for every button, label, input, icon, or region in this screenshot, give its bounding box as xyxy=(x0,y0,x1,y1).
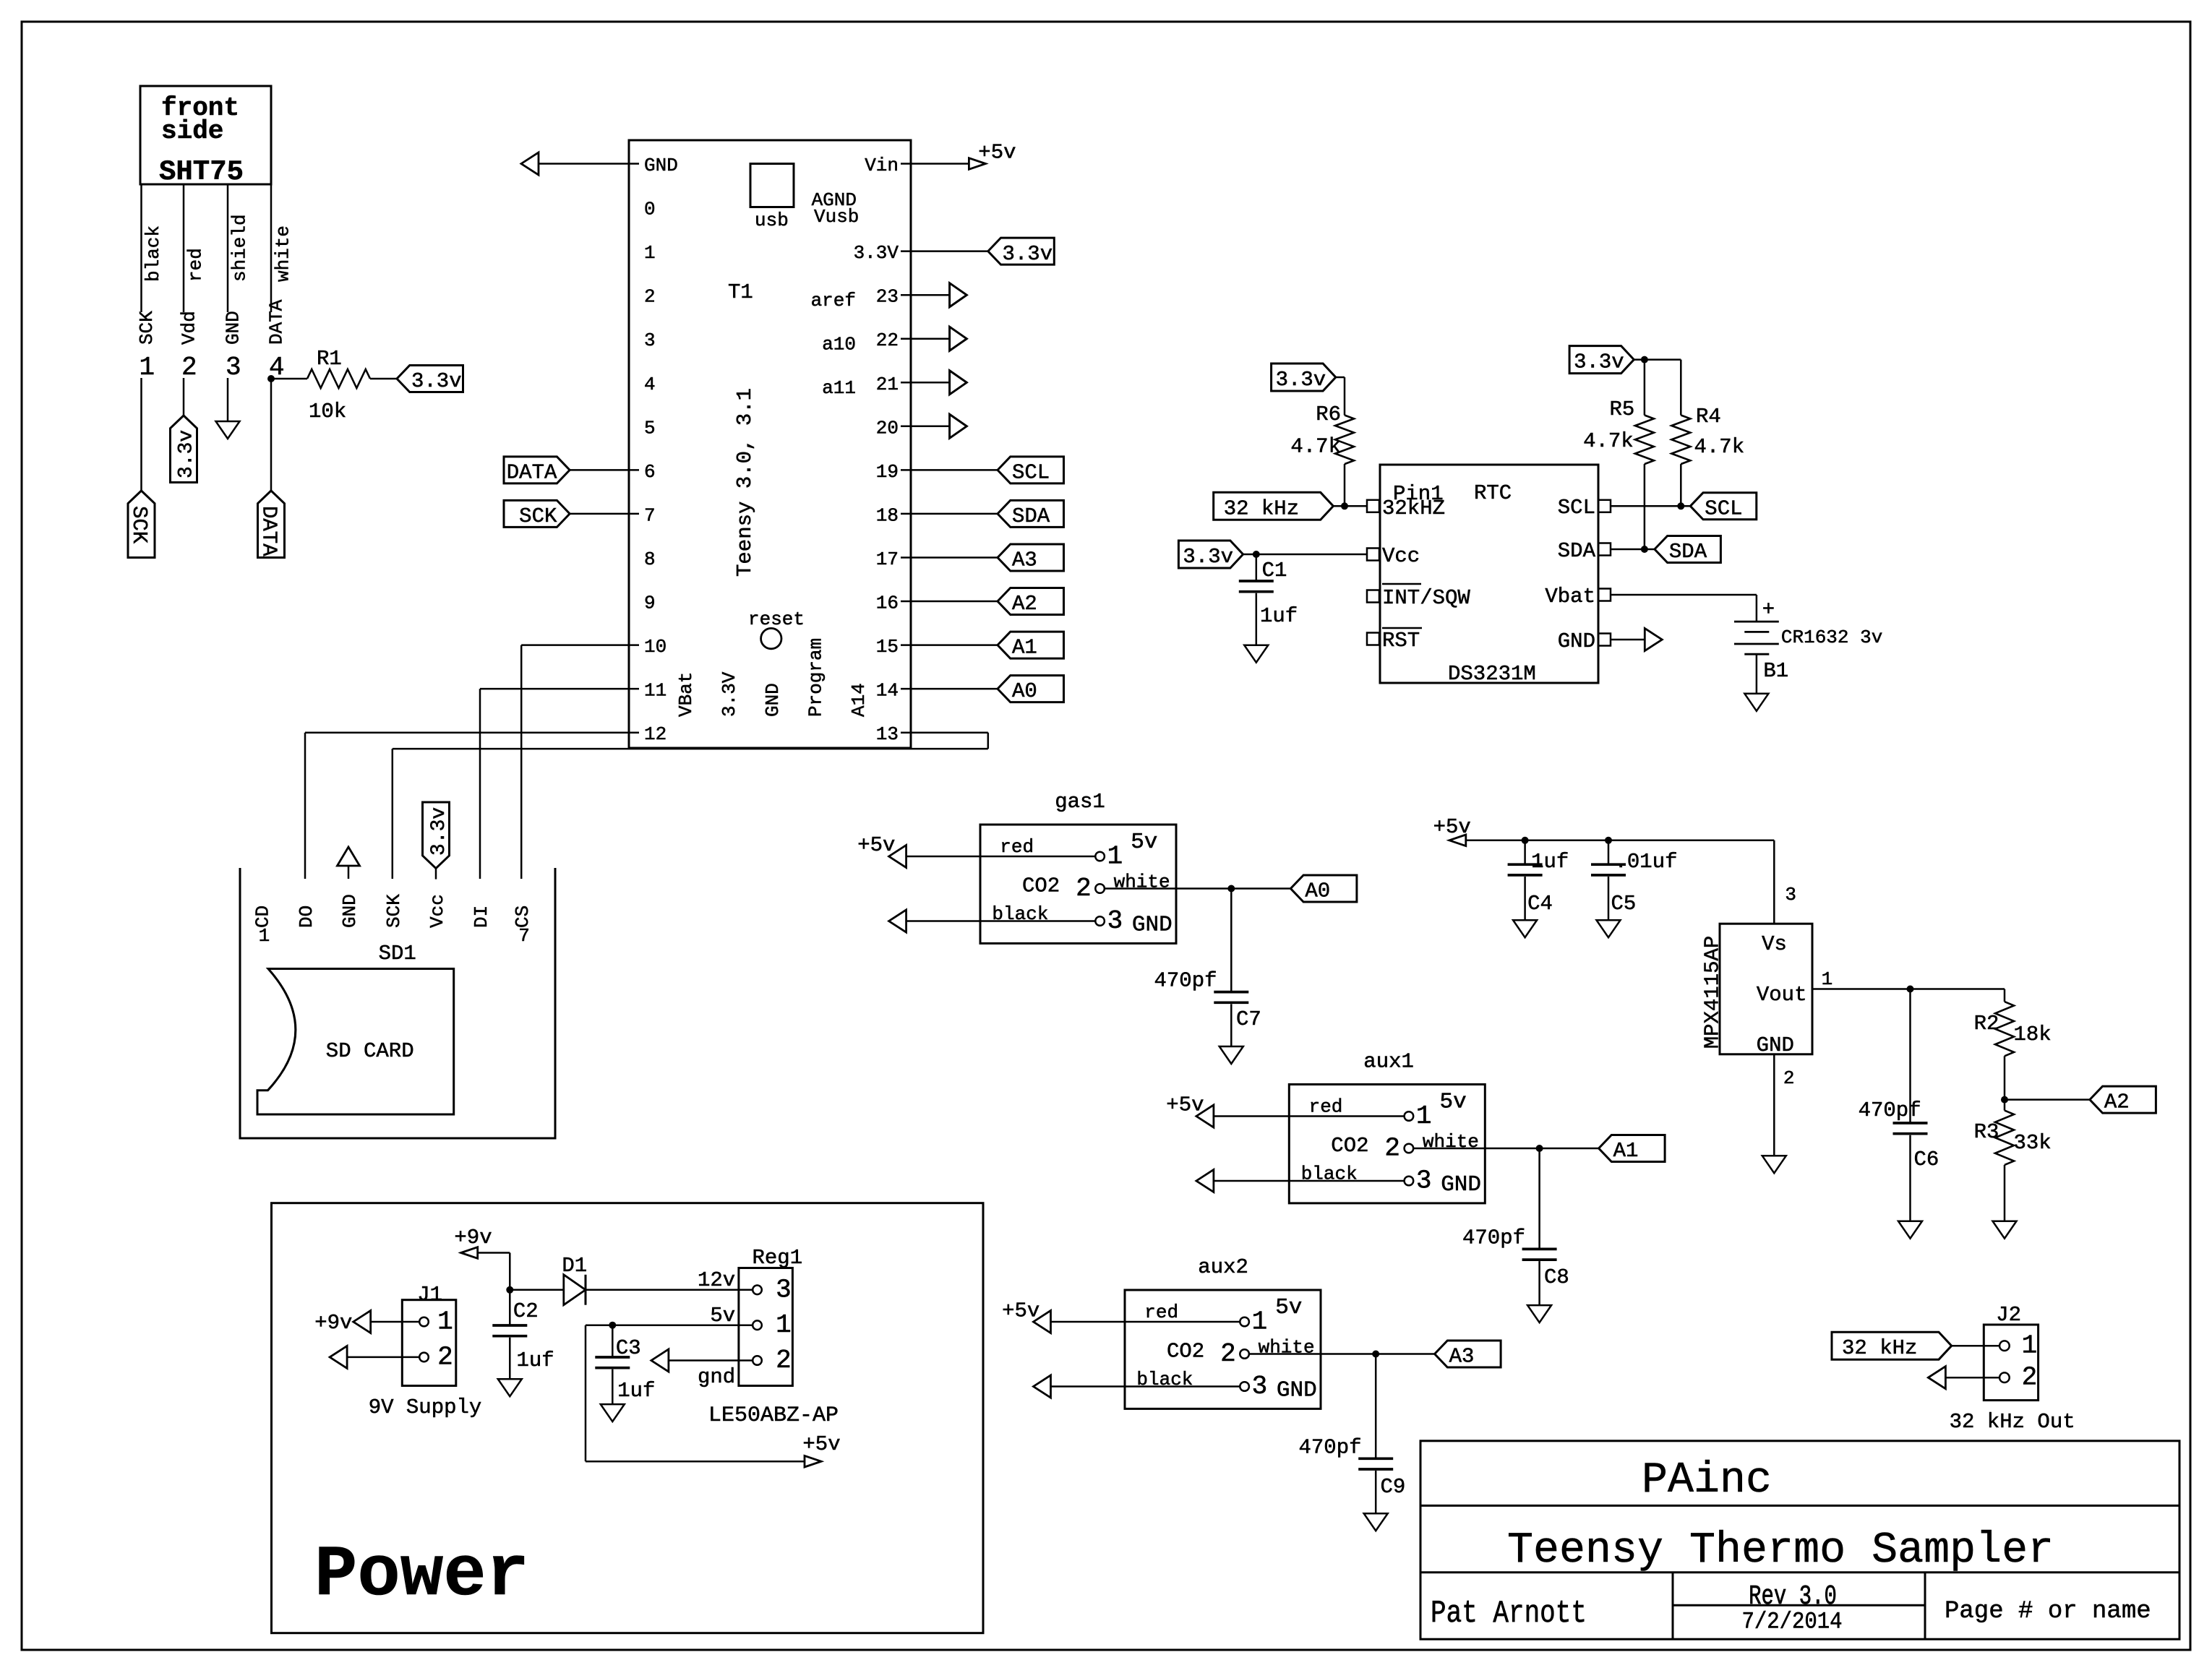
svg-text:1: 1 xyxy=(1822,968,1833,990)
svg-text:GND: GND xyxy=(1757,1033,1794,1057)
svg-text:1uf: 1uf xyxy=(1260,604,1298,628)
svg-text:A3: A3 xyxy=(1449,1345,1475,1369)
svg-text:32 kHz: 32 kHz xyxy=(1842,1336,1917,1360)
svg-text:23: 23 xyxy=(876,286,899,308)
svg-text:32 kHz: 32 kHz xyxy=(1224,496,1299,520)
svg-text:470pf: 470pf xyxy=(1154,969,1217,993)
svg-text:470pf: 470pf xyxy=(1298,1435,1361,1459)
svg-text:4.7k: 4.7k xyxy=(1694,435,1745,459)
svg-text:GND: GND xyxy=(1132,913,1173,938)
svg-text:32kHZ: 32kHZ xyxy=(1382,496,1445,520)
svg-text:3: 3 xyxy=(1416,1166,1432,1196)
svg-text:+5v: +5v xyxy=(857,833,895,857)
svg-text:1: 1 xyxy=(1107,842,1123,872)
svg-text:1uf: 1uf xyxy=(1531,850,1569,874)
svg-text:Rev 3.0: Rev 3.0 xyxy=(1749,1582,1837,1613)
svg-text:Vcc: Vcc xyxy=(1382,544,1420,568)
svg-text:1: 1 xyxy=(259,925,270,947)
svg-text:Teensy 3.0, 3.1: Teensy 3.0, 3.1 xyxy=(733,388,757,577)
svg-text:A3: A3 xyxy=(1012,549,1037,572)
svg-text:red: red xyxy=(185,248,207,282)
svg-text:+9v: +9v xyxy=(454,1226,492,1250)
svg-text:+5v: +5v xyxy=(1002,1299,1039,1323)
svg-text:B1: B1 xyxy=(1763,659,1788,683)
svg-text:2: 2 xyxy=(776,1346,792,1375)
svg-text:4.7k: 4.7k xyxy=(1290,435,1341,459)
svg-text:SCK: SCK xyxy=(519,504,557,528)
svg-text:A2: A2 xyxy=(1012,592,1037,616)
svg-text:SCK: SCK xyxy=(136,311,158,345)
svg-text:Pat Arnott: Pat Arnott xyxy=(1431,1596,1587,1632)
svg-text:+5v: +5v xyxy=(1166,1093,1204,1117)
svg-text:RST: RST xyxy=(1382,629,1420,653)
svg-text:aref: aref xyxy=(811,290,856,311)
svg-text:SHT75: SHT75 xyxy=(159,156,244,188)
svg-text:white: white xyxy=(1114,872,1170,893)
svg-text:INT/SQW: INT/SQW xyxy=(1382,586,1470,610)
svg-text:shield: shield xyxy=(229,214,251,282)
svg-text:A1: A1 xyxy=(1613,1139,1639,1163)
svg-text:VBat: VBat xyxy=(675,672,697,717)
svg-text:SDA: SDA xyxy=(1669,540,1707,564)
svg-text:Teensy Thermo Sampler: Teensy Thermo Sampler xyxy=(1507,1526,2054,1575)
svg-text:R3: R3 xyxy=(1974,1120,1999,1144)
svg-text:1: 1 xyxy=(644,242,656,264)
svg-text:GND: GND xyxy=(1277,1378,1317,1403)
svg-text:PAinc: PAinc xyxy=(1642,1456,1772,1505)
svg-text:A0: A0 xyxy=(1012,679,1037,703)
svg-text:D1: D1 xyxy=(562,1254,587,1278)
svg-text:C2: C2 xyxy=(513,1299,539,1323)
svg-text:DI: DI xyxy=(471,906,492,928)
svg-text:0: 0 xyxy=(644,199,656,220)
svg-text:Vs: Vs xyxy=(1762,932,1787,956)
svg-text:22: 22 xyxy=(876,330,899,351)
svg-text:Page # or name: Page # or name xyxy=(1945,1598,2151,1625)
svg-text:2: 2 xyxy=(1783,1067,1795,1089)
svg-text:CO2: CO2 xyxy=(1331,1134,1368,1158)
svg-text:white: white xyxy=(273,225,294,282)
svg-text:12: 12 xyxy=(644,723,666,745)
svg-text:Vout: Vout xyxy=(1757,983,1807,1007)
svg-text:4: 4 xyxy=(644,374,656,395)
svg-text:2: 2 xyxy=(1220,1339,1236,1369)
svg-text:+5v: +5v xyxy=(1433,815,1471,839)
svg-text:3: 3 xyxy=(1252,1372,1268,1401)
svg-text:5v: 5v xyxy=(1440,1090,1467,1115)
svg-text:LE50ABZ-AP: LE50ABZ-AP xyxy=(708,1403,839,1428)
svg-text:11: 11 xyxy=(644,680,666,702)
svg-text:Reg1: Reg1 xyxy=(753,1246,803,1270)
svg-text:17: 17 xyxy=(876,549,899,570)
svg-text:18k: 18k xyxy=(2014,1023,2052,1046)
svg-text:5v: 5v xyxy=(1275,1295,1302,1320)
svg-text:R4: R4 xyxy=(1696,405,1721,429)
svg-text:SCK: SCK xyxy=(127,506,151,544)
svg-text:2: 2 xyxy=(2022,1363,2038,1393)
svg-text:3.3v: 3.3v xyxy=(1183,545,1233,569)
svg-text:gnd: gnd xyxy=(698,1365,735,1389)
svg-text:A0: A0 xyxy=(1305,879,1330,903)
svg-text:red: red xyxy=(1000,836,1034,858)
svg-text:A1: A1 xyxy=(1012,636,1037,660)
svg-text:DATA: DATA xyxy=(266,299,288,345)
svg-text:reset: reset xyxy=(748,608,805,630)
svg-text:1: 1 xyxy=(2022,1331,2038,1361)
svg-text:SD1: SD1 xyxy=(379,942,416,965)
svg-text:Vbat: Vbat xyxy=(1545,585,1595,608)
svg-text:6: 6 xyxy=(644,461,656,483)
svg-text:1: 1 xyxy=(776,1310,792,1340)
svg-text:19: 19 xyxy=(876,461,899,483)
svg-text:.01uf: .01uf xyxy=(1615,850,1678,874)
svg-text:1: 1 xyxy=(1252,1307,1268,1337)
svg-text:10k: 10k xyxy=(309,400,346,423)
svg-text:470pf: 470pf xyxy=(1859,1098,1921,1122)
svg-text:R1: R1 xyxy=(317,347,342,371)
svg-text:GND: GND xyxy=(644,155,678,176)
svg-text:2: 2 xyxy=(1384,1134,1400,1164)
svg-text:2: 2 xyxy=(437,1342,453,1372)
svg-text:13: 13 xyxy=(876,723,899,745)
svg-text:12v: 12v xyxy=(698,1268,735,1292)
svg-text:J2: J2 xyxy=(1996,1303,2021,1327)
svg-text:Vdd: Vdd xyxy=(179,311,200,345)
svg-text:2: 2 xyxy=(644,286,656,308)
svg-text:8: 8 xyxy=(644,549,656,570)
svg-text:10: 10 xyxy=(644,636,666,658)
svg-text:3: 3 xyxy=(776,1275,792,1304)
svg-text:gas1: gas1 xyxy=(1055,790,1105,814)
svg-text:3: 3 xyxy=(1107,906,1123,936)
svg-text:4.7k: 4.7k xyxy=(1583,429,1634,453)
svg-text:white: white xyxy=(1259,1337,1315,1359)
svg-text:C9: C9 xyxy=(1381,1475,1406,1499)
svg-text:3.3v: 3.3v xyxy=(176,430,198,478)
svg-text:DATA: DATA xyxy=(507,460,557,484)
svg-text:C4: C4 xyxy=(1527,892,1553,916)
svg-text:20: 20 xyxy=(876,417,899,439)
svg-text:+: + xyxy=(1762,598,1775,622)
svg-text:+5v: +5v xyxy=(978,141,1016,165)
svg-text:T1: T1 xyxy=(728,280,753,304)
svg-text:14: 14 xyxy=(876,680,899,702)
svg-text:Vin: Vin xyxy=(865,155,899,176)
svg-text:3.3v: 3.3v xyxy=(411,369,462,393)
svg-text:Vcc: Vcc xyxy=(426,894,448,928)
svg-text:5: 5 xyxy=(644,417,656,439)
svg-text:C5: C5 xyxy=(1611,892,1637,916)
svg-text:red: red xyxy=(1144,1302,1178,1323)
svg-text:21: 21 xyxy=(876,374,899,395)
svg-text:3.3v: 3.3v xyxy=(1276,368,1326,392)
svg-text:side: side xyxy=(161,116,223,146)
svg-text:3.3v: 3.3v xyxy=(428,807,450,856)
svg-text:GND: GND xyxy=(223,311,244,345)
svg-text:SCL: SCL xyxy=(1558,496,1595,520)
svg-text:SCL: SCL xyxy=(1012,460,1050,484)
svg-text:R6: R6 xyxy=(1316,403,1341,426)
svg-text:CO2: CO2 xyxy=(1022,874,1060,898)
svg-text:SCK: SCK xyxy=(383,894,405,928)
svg-text:1uf: 1uf xyxy=(617,1379,655,1403)
svg-text:+9v: +9v xyxy=(314,1311,352,1335)
svg-text:aux1: aux1 xyxy=(1363,1050,1414,1074)
svg-text:15: 15 xyxy=(876,636,899,658)
svg-text:DATA: DATA xyxy=(257,506,281,556)
svg-text:GND: GND xyxy=(762,683,784,717)
svg-text:33k: 33k xyxy=(2014,1131,2052,1155)
svg-text:SDA: SDA xyxy=(1558,539,1596,563)
svg-text:1uf: 1uf xyxy=(517,1349,554,1372)
svg-text:+5v: +5v xyxy=(802,1432,840,1456)
svg-text:C7: C7 xyxy=(1236,1007,1261,1031)
svg-text:3.3v: 3.3v xyxy=(1574,350,1624,374)
svg-text:DO: DO xyxy=(296,906,317,928)
svg-text:SD CARD: SD CARD xyxy=(326,1039,414,1063)
svg-text:2: 2 xyxy=(181,353,197,382)
svg-text:3: 3 xyxy=(226,353,241,382)
svg-text:1: 1 xyxy=(437,1307,453,1337)
svg-text:7: 7 xyxy=(644,504,656,526)
svg-text:32 kHz Out: 32 kHz Out xyxy=(1950,1410,2075,1434)
svg-text:GND: GND xyxy=(339,894,361,928)
svg-text:3: 3 xyxy=(644,330,656,351)
svg-text:18: 18 xyxy=(876,504,899,526)
svg-text:DS3231M: DS3231M xyxy=(1448,662,1536,686)
svg-text:C1: C1 xyxy=(1262,559,1287,582)
svg-text:3.3V: 3.3V xyxy=(854,242,899,264)
svg-text:Vusb: Vusb xyxy=(814,206,859,228)
svg-text:9V Supply: 9V Supply xyxy=(369,1395,482,1419)
svg-text:1: 1 xyxy=(1416,1101,1432,1131)
svg-text:a11: a11 xyxy=(822,377,856,399)
svg-text:5v: 5v xyxy=(710,1304,735,1328)
svg-text:GND: GND xyxy=(1558,629,1595,653)
svg-text:3.3v: 3.3v xyxy=(1003,242,1053,266)
svg-text:A14: A14 xyxy=(848,683,870,717)
svg-text:black: black xyxy=(142,225,164,282)
svg-text:aux2: aux2 xyxy=(1198,1255,1248,1279)
svg-text:2: 2 xyxy=(1076,874,1092,903)
svg-text:CO2: CO2 xyxy=(1167,1340,1204,1364)
svg-text:R2: R2 xyxy=(1974,1012,1999,1036)
svg-text:3: 3 xyxy=(1785,884,1796,906)
svg-text:SCL: SCL xyxy=(1705,496,1742,520)
svg-text:a10: a10 xyxy=(822,334,856,356)
svg-text:RTC: RTC xyxy=(1474,481,1512,505)
svg-text:C8: C8 xyxy=(1544,1265,1569,1289)
svg-text:red: red xyxy=(1309,1096,1343,1118)
svg-text:16: 16 xyxy=(876,593,899,614)
svg-text:SDA: SDA xyxy=(1012,504,1050,528)
svg-text:1: 1 xyxy=(140,353,155,382)
svg-text:3.3V: 3.3V xyxy=(719,671,740,717)
svg-text:GND: GND xyxy=(1441,1172,1481,1197)
svg-text:A2: A2 xyxy=(2104,1091,2130,1114)
svg-text:J1: J1 xyxy=(417,1283,442,1307)
svg-text:C6: C6 xyxy=(1914,1148,1939,1171)
svg-text:white: white xyxy=(1423,1131,1479,1153)
svg-text:Power: Power xyxy=(314,1535,529,1616)
svg-text:7: 7 xyxy=(518,925,530,947)
svg-text:7/2/2014: 7/2/2014 xyxy=(1741,1609,1842,1635)
svg-text:usb: usb xyxy=(755,210,789,231)
svg-text:C3: C3 xyxy=(616,1336,641,1360)
svg-text:MPX4115AP: MPX4115AP xyxy=(1701,936,1725,1049)
svg-text:5v: 5v xyxy=(1131,830,1157,855)
svg-text:Program: Program xyxy=(805,638,827,717)
svg-text:R5: R5 xyxy=(1610,397,1635,421)
svg-text:470pf: 470pf xyxy=(1462,1226,1525,1250)
svg-text:9: 9 xyxy=(644,593,656,614)
svg-text:CR1632 3v: CR1632 3v xyxy=(1781,627,1882,648)
